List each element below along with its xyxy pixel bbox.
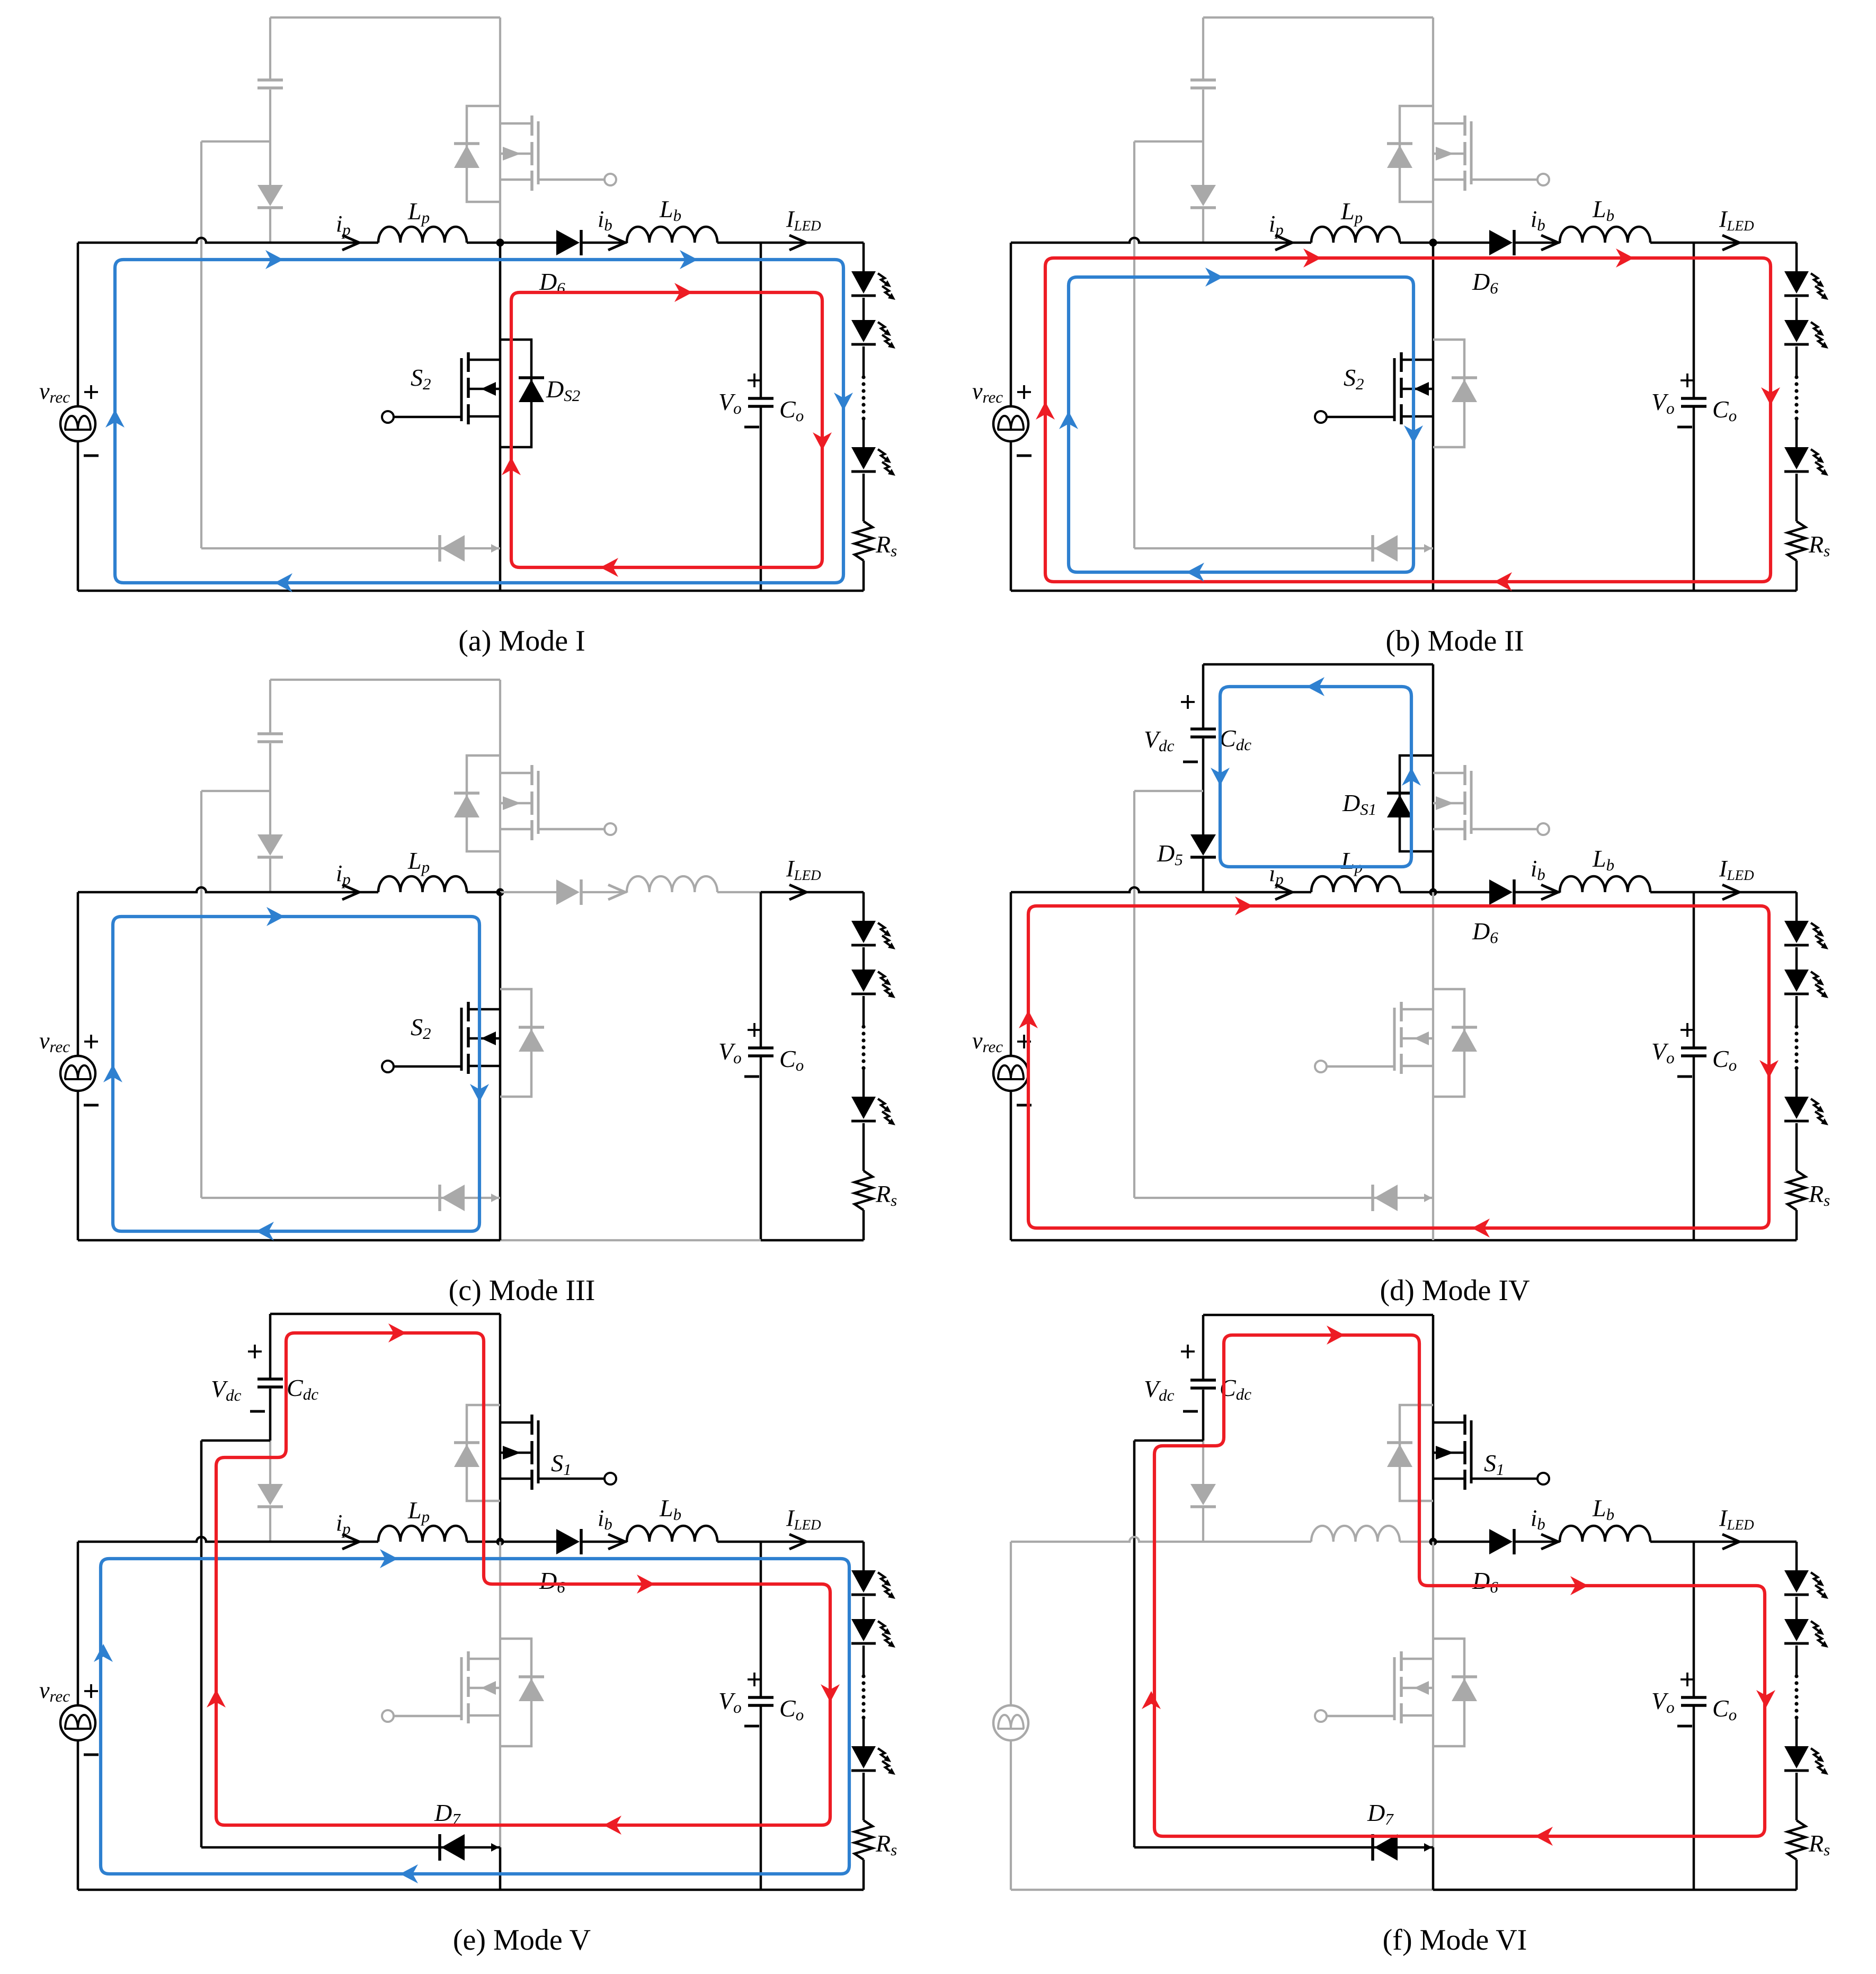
wire D7 branch vertical [e] — [200, 1441, 203, 1847]
blue loop arrow [d] — [1402, 768, 1421, 786]
inductor L_p [d] — [1311, 876, 1400, 892]
label + (C_dc plus) [d] — [1181, 695, 1195, 709]
label + (v_rec plus) [a] — [84, 385, 98, 399]
diode D5 [c] — [257, 834, 283, 856]
LED 3 [e] — [851, 1746, 876, 1768]
capacitor C_dc [a] — [257, 78, 283, 82]
wire D5 lower lead [f] — [1202, 1507, 1204, 1542]
red loop arrow [a] — [674, 283, 692, 302]
blue loop arrow [c] — [256, 1222, 274, 1241]
blue loop arrow [c] — [266, 907, 284, 926]
junction arrow at D7 row end [e] — [491, 1843, 499, 1852]
red loop arrow [b] — [1761, 387, 1780, 405]
blue loop arrow [d] — [1211, 768, 1230, 786]
capacitor C_o [e] — [748, 1696, 773, 1699]
blue loop arrow [a] — [274, 573, 292, 592]
red loop arrow [d] — [1759, 1060, 1779, 1078]
body diode D_S1 [d] — [1387, 795, 1412, 817]
LED 2 [e] — [851, 1619, 876, 1641]
blue loop arrow [e] — [380, 1549, 398, 1568]
wire bottom rail middle [f] — [1433, 1889, 1694, 1891]
wire top rail [b] — [1203, 16, 1433, 19]
red loop arrow [e] — [207, 1690, 226, 1708]
diode D6 [d] — [1489, 879, 1513, 905]
current arrow i_p [d] — [1275, 885, 1292, 900]
wire jog to D7 branch [b] — [1134, 140, 1203, 143]
blue loop arrow [e] — [94, 1644, 113, 1662]
wire C_o column to LED corner [c] — [761, 891, 864, 894]
wire L_p to node [c] — [467, 891, 500, 894]
label - (V_o minus) [b] — [1677, 426, 1692, 429]
transistor S2 (MOSFET symbol) [e] — [467, 1651, 470, 1671]
red loop arrow [d] — [1235, 896, 1253, 915]
wire v_rec bottom lead [e] — [77, 1740, 79, 1890]
label + (v_rec plus) [b] — [1017, 385, 1031, 399]
wire C_dc branch top segment [d] — [1202, 664, 1205, 728]
wire C_o upper [b] — [1693, 243, 1695, 398]
wire D_S2 bracket [f] — [1433, 1639, 1464, 1746]
wire v_rec top lead [e] — [77, 1542, 79, 1705]
wire input rail with crossover hop [f] — [1011, 1537, 1311, 1542]
diode D7 [b] — [1374, 535, 1398, 562]
node junction dot [d] — [1429, 888, 1437, 896]
wire D6 to L_b [a] — [582, 242, 627, 244]
wire C_dc branch top segment [f] — [1202, 1315, 1205, 1379]
wire LED column top [f] — [1795, 1542, 1798, 1570]
dotted continuation of LED string [a] — [861, 375, 865, 379]
blue current loop [a] — [115, 260, 843, 583]
red loop arrow [a] — [502, 457, 521, 475]
resistor R_s [d] — [1788, 1171, 1806, 1210]
svg-text:(d) Mode IV: (d) Mode IV — [1380, 1274, 1530, 1307]
wire top rail [a] — [270, 16, 500, 19]
current arrow i_p [a] — [342, 235, 359, 250]
red loop arrow [f] — [1535, 1827, 1553, 1846]
wire v_rec bottom lead [b] — [1010, 441, 1012, 591]
wire R_s to bottom rail [b] — [1795, 561, 1798, 591]
transistor S2 (MOSFET symbol) [a] — [467, 352, 470, 372]
red loop arrow [d] — [1472, 1219, 1490, 1238]
body diode D_S2 [f] — [1452, 1678, 1477, 1701]
wire C_o lower [c] — [760, 1056, 762, 1240]
capacitor C_o [c] — [748, 1046, 773, 1050]
wire L_b to C_o column [f] — [1650, 1541, 1694, 1543]
resistor R_s [e] — [855, 1820, 873, 1860]
capacitor C_dc [e] — [257, 1377, 283, 1381]
wire R_s to bottom rail [f] — [1795, 1860, 1798, 1890]
wire jog to D7 branch [d] — [1134, 790, 1203, 792]
blue loop arrow [a] — [105, 410, 125, 428]
wire D6 to L_b [c] — [582, 891, 627, 893]
wire D6 to L_b [b] — [1515, 242, 1560, 244]
blue loop arrow [b] — [1404, 425, 1423, 443]
diode D5 [d] — [1190, 834, 1216, 856]
red current loop [a] — [511, 292, 822, 567]
wire C_o lower [f] — [1693, 1705, 1695, 1890]
LED 1 [b] — [1784, 271, 1809, 294]
diode D6 [b] — [1489, 230, 1513, 255]
label + (V_o plus) [a] — [748, 374, 761, 387]
wire C_o column to LED corner [f] — [1694, 1541, 1797, 1543]
wire D7 branch vertical [f] — [1133, 1441, 1136, 1847]
label - (v_rec minus) [b] — [1017, 455, 1032, 457]
wire input rail with crossover hop [a] — [78, 238, 378, 243]
label - (C_dc minus) [d] — [1183, 761, 1198, 763]
body diode D_S1 [c] — [454, 795, 479, 817]
red loop arrow [b] — [1036, 402, 1055, 420]
LED 3 [f] — [1784, 1746, 1809, 1768]
wire D5 upper lead [d] — [1202, 791, 1205, 834]
LED 2 [c] — [851, 970, 876, 992]
inductor L_b [e] — [627, 1526, 717, 1542]
transistor S1 (MOSFET symbol) [d] — [1463, 765, 1466, 785]
red loop arrow [f] — [1327, 1326, 1345, 1345]
wire S2 spine upper [b] — [1432, 243, 1435, 548]
wire L_b to C_o column [e] — [717, 1541, 761, 1543]
LED 2 [f] — [1784, 1619, 1809, 1641]
wire D5 lower lead [d] — [1202, 857, 1205, 892]
red loop arrow [e] — [637, 1575, 655, 1594]
wire L_p to node [f] — [1400, 1541, 1433, 1543]
red loop arrow [f] — [1570, 1576, 1588, 1595]
wire C_dc bottom to jog [b] — [1202, 90, 1204, 141]
red loop arrow [b] — [1494, 572, 1512, 591]
wire L_p to node [d] — [1400, 891, 1433, 894]
wire bottom rail middle [b] — [1433, 590, 1694, 592]
blue loop arrow [b] — [1059, 411, 1078, 429]
wire L_p to node [e] — [467, 1541, 500, 1543]
wire C_o upper [c] — [760, 892, 762, 1048]
wire D7 row [f] — [1134, 1846, 1433, 1849]
resistor R_s [f] — [1788, 1820, 1806, 1860]
wire bottom rail left [f] — [1011, 1889, 1433, 1891]
blue current loop [e] — [101, 1559, 849, 1874]
wire S1 spine [f] — [1432, 1315, 1435, 1542]
wire bottom rail middle [c] — [500, 1239, 761, 1241]
LED 1 [c] — [851, 921, 876, 943]
wire D7 branch vertical [a] — [200, 141, 202, 548]
svg-text:(e) Mode V: (e) Mode V — [453, 1924, 591, 1957]
wire D6 to L_b [d] — [1515, 891, 1560, 894]
wire S2 spine upper [c] — [499, 892, 502, 1198]
junction arrow at D7 row end [f] — [1424, 1843, 1432, 1852]
wire S2 spine upper [a] — [499, 243, 502, 548]
body diode D_S2 [b] — [1452, 379, 1477, 402]
wire top rail [c] — [270, 679, 500, 681]
diode D6 [f] — [1489, 1529, 1513, 1554]
wire LED3 to R_s [c] — [863, 1123, 865, 1171]
junction arrow at D7 row end [b] — [1424, 544, 1432, 553]
red loop arrow [a] — [600, 558, 618, 577]
wire L_p to node [b] — [1400, 242, 1433, 244]
LED 2 [b] — [1784, 320, 1809, 342]
diode D5 [b] — [1190, 185, 1216, 206]
wire L_p to node [a] — [467, 242, 500, 244]
wire node to D6 [a] — [500, 242, 556, 244]
current arrow i_p [c] — [342, 885, 359, 900]
wire D7 branch vertical [c] — [200, 791, 202, 1198]
wire D5 lower lead [c] — [269, 857, 271, 892]
wire LED2 to dots [f] — [1795, 1646, 1798, 1676]
label + (C_dc plus) [e] — [248, 1345, 262, 1358]
capacitor C_o [d] — [1681, 1046, 1706, 1050]
label - (V_o minus) [c] — [744, 1075, 759, 1078]
wire jog to D7 branch [c] — [201, 790, 270, 792]
wire D6 to L_b [e] — [582, 1541, 627, 1543]
wire D_S2 bracket [a] — [500, 340, 531, 447]
LED 2 [d] — [1784, 970, 1809, 992]
red current loop [f] — [1154, 1335, 1765, 1836]
label + (v_rec plus) [d] — [1017, 1035, 1031, 1048]
diode D7 [f] — [1374, 1834, 1398, 1861]
wire LED3 to R_s [f] — [1795, 1773, 1798, 1820]
wire dots to LED3 [b] — [1795, 419, 1798, 447]
wire D_S2 bracket [d] — [1433, 989, 1464, 1097]
wire dots to LED3 [c] — [863, 1068, 865, 1097]
wire node to D6 [b] — [1433, 242, 1489, 244]
diode D5 [f] — [1190, 1484, 1216, 1505]
diode D6 [e] — [556, 1529, 580, 1554]
wire v_rec top lead [a] — [77, 243, 79, 406]
wire D5 lower lead [b] — [1202, 208, 1204, 243]
junction arrow at D7 row end [c] — [491, 1194, 499, 1202]
svg-text:(c) Mode III: (c) Mode III — [449, 1274, 595, 1307]
transistor S2 (MOSFET symbol) [c] — [467, 1002, 470, 1021]
transistor S1 (MOSFET symbol) [f] — [1463, 1415, 1466, 1435]
red loop arrow [b] — [1303, 248, 1321, 268]
wire top rail [d] — [1203, 663, 1433, 666]
wire LED1-LED2 [b] — [1795, 298, 1798, 320]
wire v_rec top lead [c] — [77, 892, 79, 1056]
body diode D_S2 [e] — [519, 1678, 544, 1701]
body diode D_S1 [f] — [1387, 1444, 1412, 1467]
wire S1 spine [b] — [1432, 17, 1434, 243]
wire node to D6 [c] — [500, 891, 556, 893]
wire jog to D7 branch [f] — [1134, 1439, 1203, 1442]
wire D_S1 bracket [d] — [1400, 755, 1433, 851]
wire R_s to bottom rail [e] — [863, 1860, 865, 1890]
inductor L_p [f] — [1311, 1526, 1400, 1542]
red current loop [d] — [1028, 906, 1769, 1228]
body diode D_S1 [e] — [454, 1444, 479, 1467]
current arrow I_LED [a] — [789, 235, 806, 250]
capacitor C_o [f] — [1681, 1696, 1706, 1699]
blue current loop [b] — [1069, 277, 1413, 572]
inductor L_b [b] — [1560, 227, 1650, 243]
wire LED1-LED2 [f] — [1795, 1597, 1798, 1619]
inductor L_b [c] — [627, 876, 717, 892]
wire S2 spine upper [d] — [1432, 892, 1434, 1198]
wire S1 spine [a] — [499, 17, 501, 243]
wire bottom rail left [a] — [78, 590, 500, 592]
dotted continuation of LED string [e] — [861, 1674, 865, 1678]
junction arrow at D7 row end [d] — [1424, 1194, 1432, 1202]
wire bottom rail middle [e] — [500, 1889, 761, 1891]
wire C_o column to LED corner [b] — [1694, 242, 1797, 244]
current arrow I_LED [f] — [1722, 1534, 1739, 1549]
LED 2 [a] — [851, 320, 876, 342]
wire C_dc bottom to jog [e] — [269, 1389, 272, 1441]
red loop arrow [d] — [1019, 1010, 1038, 1028]
node junction dot [b] — [1429, 239, 1437, 247]
current arrow I_LED [c] — [789, 885, 806, 900]
transistor S1 (MOSFET symbol) [a] — [530, 115, 534, 136]
wire C_dc branch top segment [a] — [269, 17, 271, 79]
inductor L_b [f] — [1560, 1526, 1650, 1542]
wire C_dc bottom to jog [d] — [1202, 739, 1205, 791]
current arrow i_p [e] — [342, 1534, 359, 1549]
current arrow i_p [b] — [1275, 235, 1292, 250]
wire LED1-LED2 [a] — [863, 298, 865, 320]
wire v_rec bottom lead [a] — [77, 441, 79, 591]
wire v_rec top lead [d] — [1010, 892, 1012, 1056]
wire bottom rail left [c] — [78, 1239, 500, 1242]
wire dots to LED3 [f] — [1795, 1718, 1798, 1746]
node junction dot [f] — [1429, 1538, 1437, 1546]
label + (V_o plus) [c] — [748, 1023, 761, 1037]
wire input rail with crossover hop [d] — [1011, 887, 1311, 892]
blue loop arrow [e] — [400, 1864, 418, 1883]
capacitor C_o [a] — [748, 397, 773, 400]
wire D7 row [d] — [1134, 1197, 1433, 1199]
dotted continuation of LED string [d] — [1794, 1025, 1798, 1028]
current arrow i_b [c] — [608, 885, 625, 900]
label + (V_o plus) [d] — [1681, 1023, 1694, 1037]
capacitor C_dc [d] — [1190, 727, 1216, 731]
wire D_S2 bracket [c] — [500, 989, 531, 1097]
blue current loop [c] — [113, 917, 479, 1231]
wire bottom rail right [a] — [761, 590, 864, 592]
wire L_b to C_o column [c] — [717, 891, 761, 893]
LED 3 [a] — [851, 447, 876, 469]
LED 3 [c] — [851, 1097, 876, 1119]
label - (v_rec minus) [a] — [84, 455, 99, 457]
red loop arrow [f] — [1756, 1690, 1775, 1708]
wire input rail with crossover hop [e] — [78, 1537, 378, 1542]
capacitor C_dc [f] — [1190, 1379, 1216, 1382]
wire LED2 to dots [c] — [863, 996, 865, 1027]
LED 3 [d] — [1784, 1097, 1809, 1119]
wire S2 spine lower [e] — [499, 1847, 502, 1890]
wire D5 upper lead [e] — [269, 1441, 271, 1484]
label - (C_dc minus) [f] — [1183, 1410, 1198, 1413]
wire S1 spine [e] — [499, 1314, 502, 1542]
inductor L_p [a] — [378, 227, 467, 243]
capacitor C_dc [c] — [257, 732, 283, 735]
wire node to D6 [e] — [500, 1541, 556, 1543]
blue loop arrow [c] — [470, 1084, 489, 1102]
wire LED2 to dots [d] — [1795, 996, 1798, 1027]
capacitor C_o [b] — [1681, 397, 1706, 400]
blue loop arrow [c] — [103, 1064, 122, 1082]
wire D_S2 bracket [e] — [500, 1639, 531, 1746]
label - (v_rec minus) [c] — [84, 1104, 99, 1107]
wire top rail [f] — [1203, 1314, 1433, 1317]
transistor S1 (MOSFET symbol) [e] — [530, 1415, 534, 1435]
wire D5 lower lead [e] — [269, 1507, 271, 1542]
wire D7 row [e] — [201, 1846, 500, 1849]
wire dots to LED3 [d] — [1795, 1068, 1798, 1097]
current arrow I_LED [d] — [1722, 885, 1739, 900]
dotted continuation of LED string [f] — [1794, 1674, 1798, 1678]
svg-text:(a) Mode I: (a) Mode I — [458, 625, 585, 657]
label - (V_o minus) [e] — [744, 1725, 759, 1728]
wire D_S1 bracket [c] — [467, 755, 500, 851]
junction arrow at D7 row end [a] — [491, 544, 499, 553]
wire C_o lower [e] — [760, 1705, 762, 1890]
wire LED1-LED2 [d] — [1795, 947, 1798, 970]
diode D5 [e] — [257, 1484, 283, 1505]
inductor L_p [b] — [1311, 227, 1400, 243]
wire LED3 to R_s [e] — [863, 1773, 865, 1820]
wire LED1-LED2 [c] — [863, 947, 865, 970]
current arrow i_b [f] — [1541, 1534, 1558, 1549]
wire D7 row [a] — [201, 547, 500, 549]
body diode D_S1 [b] — [1387, 145, 1412, 168]
wire v_rec top lead [f] — [1010, 1542, 1012, 1705]
transistor S1 (MOSFET symbol) [b] — [1463, 115, 1466, 136]
wire v_rec bottom lead [f] — [1010, 1740, 1012, 1890]
wire S2 spine lower [b] — [1432, 548, 1435, 591]
label + (V_o plus) [b] — [1681, 374, 1694, 387]
wire C_o column to LED corner [e] — [761, 1541, 864, 1543]
diode D6 [a] — [556, 230, 580, 255]
wire jog to D7 branch [e] — [201, 1439, 270, 1442]
node junction dot [e] — [496, 1538, 504, 1546]
inductor L_b [a] — [627, 227, 717, 243]
wire D7 row [c] — [201, 1197, 500, 1199]
wire input rail with crossover hop [c] — [78, 887, 378, 892]
wire C_o lower [d] — [1693, 1056, 1695, 1240]
label + (v_rec plus) [e] — [84, 1684, 98, 1698]
wire R_s to bottom rail [a] — [863, 561, 865, 591]
wire LED column top [b] — [1795, 243, 1798, 271]
wire dots to LED3 [a] — [863, 419, 865, 447]
wire D6 to L_b [f] — [1515, 1541, 1560, 1543]
resistor R_s [b] — [1788, 521, 1806, 561]
current arrow i_b [a] — [608, 235, 625, 250]
red loop arrow [a] — [813, 432, 832, 450]
wire node to D6 [f] — [1433, 1541, 1489, 1543]
wire bottom rail left [e] — [78, 1889, 500, 1891]
wire LED column top [c] — [863, 892, 865, 921]
label + (V_o plus) [f] — [1681, 1673, 1694, 1686]
wire D5 upper lead [a] — [269, 141, 271, 185]
wire C_o upper [f] — [1693, 1542, 1695, 1697]
wire C_o column to LED corner [d] — [1694, 891, 1797, 894]
transistor S2 (MOSFET symbol) [f] — [1400, 1651, 1403, 1671]
wire bottom rail right [f] — [1694, 1889, 1797, 1891]
wire bottom rail middle [a] — [500, 590, 761, 592]
inductor L_p [e] — [378, 1526, 467, 1542]
wire jog to D7 branch [a] — [201, 140, 270, 143]
wire C_o lower [a] — [760, 406, 762, 591]
label - (V_o minus) [f] — [1677, 1725, 1692, 1728]
blue loop arrow [b] — [1205, 268, 1223, 287]
body diode D_S2 [a] — [519, 379, 544, 402]
diode D5 [a] — [257, 185, 283, 206]
dotted continuation of LED string [b] — [1794, 375, 1798, 379]
wire C_dc bottom to jog [c] — [269, 743, 271, 791]
diode D7 [c] — [441, 1185, 465, 1211]
label - (V_o minus) [a] — [744, 426, 759, 429]
blue loop arrow [a] — [265, 250, 283, 269]
wire v_rec top lead [b] — [1010, 243, 1012, 406]
diode D7 [a] — [441, 535, 465, 562]
wire S1 spine [d] — [1432, 664, 1435, 892]
wire D_S1 bracket [f] — [1400, 1405, 1433, 1501]
red loop arrow [e] — [821, 1684, 840, 1702]
